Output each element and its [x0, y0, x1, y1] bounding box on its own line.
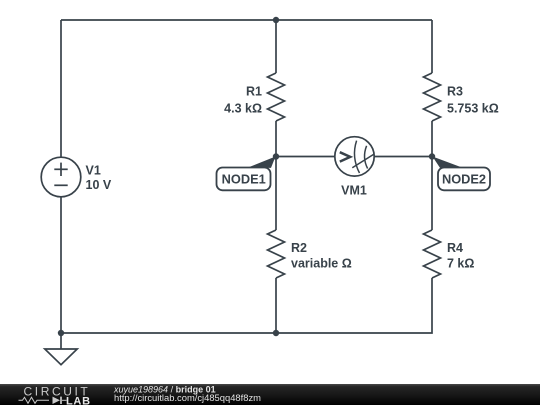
- svg-text:VM1: VM1: [341, 184, 367, 198]
- svg-text:R4: R4: [447, 241, 463, 255]
- svg-text:5.753 kΩ: 5.753 kΩ: [447, 102, 499, 116]
- svg-text:R1: R1: [246, 84, 262, 98]
- svg-text:10 V: 10 V: [86, 178, 112, 192]
- svg-text:variable Ω: variable Ω: [291, 256, 352, 270]
- svg-text:4.3 kΩ: 4.3 kΩ: [224, 102, 262, 116]
- svg-text:7 kΩ: 7 kΩ: [447, 256, 474, 270]
- svg-text:LAB: LAB: [66, 395, 91, 405]
- svg-text:http://circuitlab.com/cj485qq4: http://circuitlab.com/cj485qq48f8zm: [114, 392, 261, 403]
- svg-text:NODE1: NODE1: [222, 171, 266, 186]
- svg-text:NODE2: NODE2: [442, 171, 486, 186]
- svg-text:R3: R3: [447, 84, 463, 98]
- svg-text:V1: V1: [86, 164, 101, 178]
- svg-text:R2: R2: [291, 241, 307, 255]
